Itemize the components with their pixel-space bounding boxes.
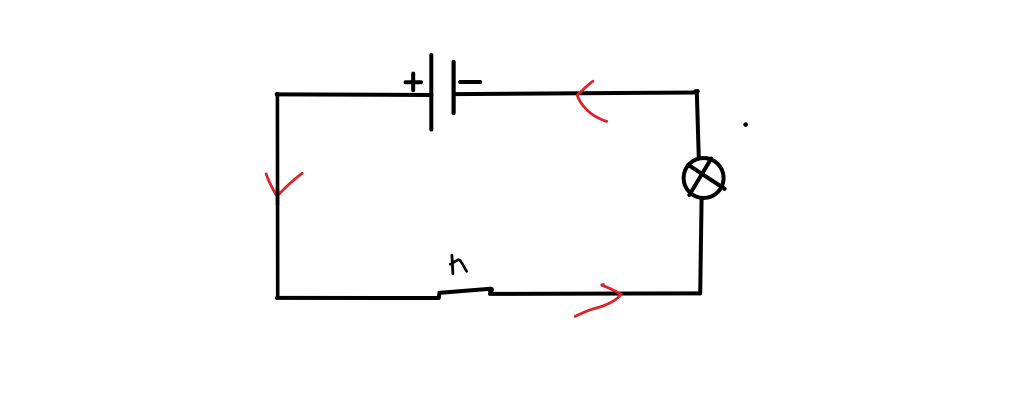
switch K contact jog	[437, 293, 442, 298]
node top-right corner	[696, 89, 698, 94]
lamp L1 cross stroke 1	[688, 165, 724, 189]
current arrow top (leftward) barb	[577, 81, 593, 95]
lamp L1 cross stroke 2	[689, 159, 711, 195]
wire right lower vertical	[700, 198, 701, 293]
label -	[460, 80, 480, 84]
stray dot	[743, 122, 748, 127]
switch K blade	[441, 289, 490, 293]
node top-left corner	[275, 92, 280, 97]
switch K pivot dot	[488, 287, 494, 293]
lamp L1 circle	[684, 158, 724, 198]
current arrow left (downward) barb	[266, 174, 277, 196]
battery B1 negative plate (short)	[452, 62, 456, 113]
wire top-right segment	[454, 93, 697, 95]
current arrow top (leftward) tail	[577, 95, 606, 121]
current arrow bottom (rightward) barb	[602, 284, 621, 294]
battery B1 positive plate (long)	[429, 55, 433, 130]
label +	[406, 74, 421, 91]
wire overdraw at left arrow vertex	[276, 189, 280, 204]
wire bottom-right segment	[490, 291, 700, 296]
wire bottom-left segment	[277, 296, 438, 300]
current arrow left (downward) tail	[277, 173, 302, 196]
current arrow bottom (rightward) tail	[575, 294, 621, 316]
label K	[452, 255, 453, 273]
wire left vertical	[276, 94, 280, 297]
wire right upper vertical	[697, 92, 699, 158]
wire top-left segment	[277, 92, 432, 97]
